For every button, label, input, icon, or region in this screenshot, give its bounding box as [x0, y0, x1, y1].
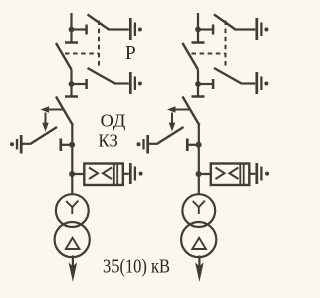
svg-text:Р: Р — [125, 43, 136, 64]
svg-text:КЗ: КЗ — [99, 130, 118, 150]
svg-text:ОД: ОД — [101, 111, 126, 131]
svg-text:35(10) кВ: 35(10) кВ — [103, 256, 170, 277]
